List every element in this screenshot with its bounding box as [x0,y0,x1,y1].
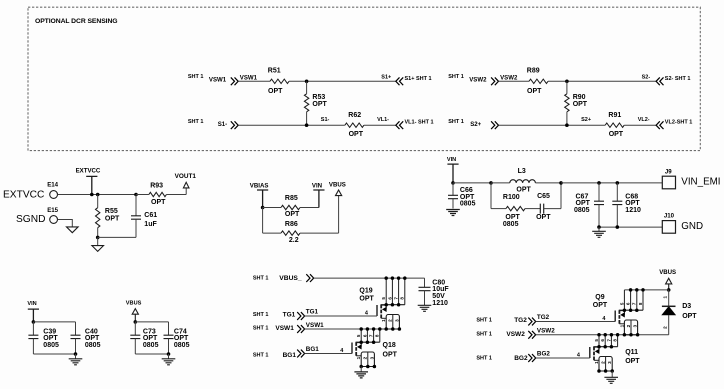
wire R85 to VIN flag [300,207,319,209]
transistor Q19 source junctions [384,327,401,331]
svg-text:VSW2: VSW2 [537,328,555,335]
svg-text:BG2: BG2 [514,355,528,362]
svg-text:OPT: OPT [527,88,542,95]
svg-text:VBIAS: VBIAS [250,182,269,189]
resistor R100 [506,206,525,210]
svg-text:Q18: Q18 [383,342,396,349]
svg-text:0805: 0805 [503,221,519,228]
diode D3 [668,290,670,306]
svg-text:D3: D3 [682,303,691,310]
connector J9 [662,176,675,189]
svg-text:VSW1: VSW1 [275,325,294,332]
svg-text:OPT: OPT [151,199,166,206]
transistor Q19 drain pin junctions [384,276,406,306]
svg-text:VIN: VIN [27,301,36,307]
svg-text:OPT: OPT [593,302,608,309]
transistor Q11 channel [593,347,595,361]
svg-text:0805: 0805 [143,342,159,349]
svg-text:R89: R89 [527,67,540,74]
svg-text:8: 8 [400,297,405,300]
transistor Q11 drain link [594,346,599,348]
svg-text:VBUS: VBUS [126,301,142,307]
wire R100 to C65 [525,208,540,210]
wire L3 node to J9 [561,182,662,184]
transistor Q18 drain pins 5 6 7 8 [360,329,362,342]
wire R91 to VL2- [624,124,656,126]
svg-text:VIN: VIN [312,182,322,189]
svg-text:S1-: S1- [218,121,227,128]
transistor Q11 drain pin junctions [597,333,619,348]
wire BG2 to Q11 gate [536,357,590,359]
connector J10 [662,221,675,234]
svg-text:S2-: S2- [642,74,651,80]
wire R62 to VL1- [364,124,396,126]
node junction S2- top [565,80,569,84]
connector >> VSW2 [491,77,498,85]
wire S1- to junction [238,124,345,126]
resistor R90 [566,81,568,94]
ground sgnd E15 [67,227,79,233]
ground under C67 [598,227,600,231]
wire ground rail to J10 [599,226,662,228]
svg-text:SHT 1: SHT 1 [253,326,269,332]
svg-text:VL1-: VL1- [377,117,389,123]
svg-text:SHT 1: SHT 1 [188,74,204,80]
capacitor C73 [134,322,136,335]
resistor R53 [306,81,308,94]
wire VSW1 rail [305,328,400,330]
resistor R93 [136,194,149,196]
svg-text:OPT: OPT [268,88,283,95]
transistor Q18 source box [361,352,374,367]
svg-text:OPT: OPT [573,101,588,108]
svg-text:VBUS_: VBUS_ [279,275,302,282]
svg-text:OPT: OPT [312,101,327,108]
svg-text:8: 8 [638,302,643,305]
resistor R91 [605,123,624,127]
connector >> S2+ [491,121,498,129]
svg-text:VSW1: VSW1 [240,74,258,81]
svg-text:TG2: TG2 [514,317,527,324]
wire cap bank VBUS top rail [135,321,168,323]
transistor Q19 channel [380,305,382,319]
net arrow VBUS mid [336,190,342,196]
svg-text:SHT 1: SHT 1 [253,275,269,281]
svg-text:SGND: SGND [16,214,45,225]
junction VBIAS [261,206,265,210]
connector >> VSW1 rail [297,325,304,333]
transistor Q18 source junctions [359,365,376,369]
wire E14 to node [58,194,137,196]
wire VSW2 rail [536,334,669,336]
svg-text:VSW1: VSW1 [209,77,227,84]
transistor Q18 gate [351,343,353,354]
svg-text:0805: 0805 [574,207,590,214]
svg-text:3: 3 [394,319,399,322]
transistor Q18 drain pin junctions [359,327,381,344]
svg-text:TG2: TG2 [537,314,550,321]
svg-text:R91: R91 [608,112,621,119]
capacitor C66 [452,183,454,195]
svg-text:S2- SHT 1: S2- SHT 1 [665,76,691,82]
svg-text:2.2: 2.2 [289,237,299,244]
transistor Q11 gate [589,347,591,358]
junction C68 top [616,181,620,185]
connector << VL2- [656,121,663,129]
junction C67 top [597,181,601,185]
svg-text:5: 5 [594,339,599,342]
junction R55 bottom [96,236,100,240]
wire parallel branch left [490,183,492,209]
svg-text:EXTVCC: EXTVCC [3,189,44,200]
svg-text:7: 7 [632,302,637,305]
svg-text:1210: 1210 [432,300,448,307]
wire TG1 to Q19 gate [305,315,377,317]
wire R86 to VBUS flag [300,232,339,234]
inductor L3 [491,182,510,184]
svg-text:TG1: TG1 [306,309,319,316]
svg-text:TG1: TG1 [283,312,296,319]
connector >> BG2 [528,354,535,362]
svg-text:6: 6 [626,302,631,305]
svg-text:7: 7 [394,297,399,300]
wire VIN node to L3 node [453,182,491,184]
junction C67 bottom [597,225,601,229]
capacitor C68 [616,183,618,201]
svg-text:7: 7 [606,339,611,342]
svg-text:1: 1 [619,324,624,327]
junction R55 top [96,193,100,197]
transistor Q9 channel [618,310,620,324]
svg-text:R51: R51 [268,67,281,74]
svg-text:OPT: OPT [609,131,624,138]
transistor Q9 drain pin junctions [623,288,645,312]
transistor Q9 drain bar [619,309,643,311]
transistor Q19 drain bar [381,304,405,306]
svg-text:VBUS: VBUS [659,269,676,276]
capacitor C40 [75,322,77,335]
resistor R62 [345,123,364,127]
transistor Q18 source link [356,355,361,357]
transistor Q18 drain bar [356,341,380,343]
svg-text:E15: E15 [47,207,58,214]
turret E14 [50,191,58,199]
svg-text:1210: 1210 [625,207,641,214]
transistor Q18 body arrow [360,342,362,347]
ground under C66 [446,210,460,216]
svg-text:R53: R53 [312,94,325,101]
svg-text:VBUS: VBUS [329,182,346,189]
wire R51 to S1+ [289,80,396,82]
node junction S1- bottom [305,123,309,127]
connector >> VBUS_ [306,274,313,282]
svg-text:C61: C61 [144,212,157,219]
turret E15 [50,216,58,224]
svg-text:J9: J9 [665,168,672,175]
wire E15 to ground [58,220,73,227]
transistor Q9 source junctions [623,333,640,337]
net arrow VOUT1 [185,188,187,194]
svg-text:1: 1 [356,356,361,359]
wire C65 to right node [544,208,561,210]
transistor Q9 source link [619,323,624,325]
svg-text:BG2: BG2 [537,351,550,358]
svg-text:3: 3 [607,361,612,364]
transistor Q18 channel [355,342,357,356]
svg-text:VL1- SHT 1: VL1- SHT 1 [405,120,434,126]
transistor Q11 source box [599,357,612,372]
transistor Q9 drain pins 5 6 7 8 [623,290,625,310]
svg-text:VSW1: VSW1 [306,322,324,329]
svg-text:S1-: S1- [321,117,330,123]
ground cap bank VBUS [168,354,170,359]
transistor Q11 drain bar [593,346,617,348]
svg-text:GND: GND [681,221,703,232]
junction C68 bottom [616,225,620,229]
svg-text:VIN_EMI: VIN_EMI [681,176,720,187]
wire VSW1 to R51 [238,80,270,82]
svg-text:3: 3 [369,356,374,359]
junction L3 left [489,181,493,185]
capacitor C65 [540,204,543,214]
svg-text:BG1: BG1 [283,352,297,359]
ground under C80 [418,305,432,311]
svg-text:VL2-SHT 1: VL2-SHT 1 [665,120,693,126]
connector << VL1- [396,121,403,129]
svg-text:E14: E14 [47,181,58,188]
junction VBUS right [667,288,671,292]
svg-text:2: 2 [601,361,606,364]
node junction S2+ bottom [565,123,569,127]
svg-text:8: 8 [613,339,618,342]
wire VBIAS down to R86 [262,208,264,234]
svg-text:5: 5 [356,334,361,337]
svg-text:OPTIONAL DCR SENSING: OPTIONAL DCR SENSING [35,18,118,25]
transistor Q19 drain link [381,304,386,306]
capacitor C67 [598,183,600,201]
junction L3 right [559,181,563,185]
svg-text:OPT: OPT [536,214,551,221]
transistor Q11 body arrow [598,347,600,352]
connector << S2- [656,77,663,85]
svg-text:Q9: Q9 [595,294,604,301]
connector >> TG2 [528,318,535,326]
resistor R89 [529,79,548,83]
transistor Q18 drain link [356,341,361,343]
wire S2+ to junction [499,124,606,126]
svg-text:S1+: S1+ [381,74,391,80]
transistor Q11 source link [594,359,599,361]
transistor Q19 gate [376,305,378,316]
svg-text:L3: L3 [518,168,526,175]
ground sgnd under R55 [97,237,99,245]
svg-text:2: 2 [626,324,631,327]
junction VIN emi [451,181,455,185]
svg-text:R100: R100 [503,194,520,201]
transistor Q19 drain pins 5 6 7 8 [385,278,387,305]
optional DCR sensing dashed box [28,7,700,150]
junction EXTVCC flag [90,193,94,197]
svg-text:OPT: OPT [383,352,398,359]
transistor Q11 source junctions [597,369,614,373]
svg-text:R90: R90 [573,94,586,101]
transistor Q19 source link [381,317,386,319]
svg-text:OPT: OPT [359,295,374,302]
svg-text:7: 7 [369,334,374,337]
svg-text:SHT 1: SHT 1 [476,332,492,338]
junction VBUS cap bank [134,320,138,324]
svg-text:Q11: Q11 [625,349,638,356]
svg-text:SHT 1: SHT 1 [253,312,269,318]
junction cap bank VIN ground [74,352,78,356]
svg-text:Q19: Q19 [359,288,372,295]
svg-text:5: 5 [619,302,624,305]
svg-text:SHT 1: SHT 1 [476,318,492,324]
wire cap bank VIN bottom rail [33,353,75,355]
connector >> BG1 [297,350,304,358]
junction cap bank VBUS ground [167,352,171,356]
svg-text:0805: 0805 [460,201,476,208]
svg-text:SHT 1: SHT 1 [253,352,269,358]
svg-text:EXTVCC: EXTVCC [76,168,101,175]
transistor Q9 drain link [619,309,624,311]
svg-text:0805: 0805 [85,342,101,349]
svg-text:S2+: S2+ [470,121,481,128]
wire VBUS rail right [624,289,668,291]
svg-text:VSW2: VSW2 [506,331,525,338]
svg-text:SHT 1: SHT 1 [448,74,464,80]
svg-text:VIN: VIN [447,157,456,163]
connector >> TG1 [297,312,304,320]
ground cap bank VIN [75,354,77,359]
svg-text:SHT 1: SHT 1 [476,356,492,362]
transistor Q9 source box [624,320,637,335]
resistor R86 [281,231,300,235]
connector << S1+ [396,77,403,85]
svg-text:1uF: 1uF [144,221,157,228]
transistor Q19 source box [386,315,399,330]
svg-text:R93: R93 [150,183,163,190]
svg-text:6: 6 [387,297,392,300]
wire BG1 to Q18 gate [305,353,352,355]
wire cap bank VBUS bottom rail [135,353,168,355]
svg-text:2: 2 [663,326,668,329]
svg-text:OPT: OPT [682,313,697,320]
resistor R51 [270,79,289,83]
svg-text:S2+: S2+ [581,117,591,123]
svg-text:2: 2 [363,356,368,359]
wire TG2 to Q9 gate [536,321,616,323]
svg-text:VL2-: VL2- [638,117,650,123]
svg-text:VSW2: VSW2 [469,77,487,84]
node junction S1+ top [305,80,309,84]
wire R89 to S2- [548,80,656,82]
svg-text:0805: 0805 [43,342,59,349]
wire cap bank VIN top rail [33,321,75,323]
svg-text:6: 6 [362,334,367,337]
junction VIN cap bank [32,320,36,324]
svg-text:8: 8 [375,334,380,337]
svg-text:1: 1 [381,319,386,322]
wire VBUS_ rail [314,277,425,279]
svg-text:BG1: BG1 [306,346,319,353]
svg-text:OPT: OPT [516,186,531,193]
transistor Q11 drain pins 5 6 7 8 [598,335,600,347]
svg-text:2: 2 [388,319,393,322]
svg-text:OPT: OPT [105,216,120,223]
transistor Q19 body arrow [385,305,387,310]
svg-text:R55: R55 [105,208,118,215]
wire R55 bottom to C61 bottom [98,236,136,238]
svg-text:OPT: OPT [285,211,300,218]
connector >> VSW1 [231,77,238,85]
capacitor C80 [424,278,426,287]
capacitor C61 [134,193,138,197]
transistor Q9 body arrow [623,310,625,315]
svg-text:0805: 0805 [174,342,190,349]
svg-text:R62: R62 [348,112,361,119]
svg-text:6: 6 [600,339,605,342]
svg-text:VOUT1: VOUT1 [175,173,197,180]
svg-text:SHT 1: SHT 1 [448,119,464,125]
connector >> VSW2 rail [528,331,535,339]
svg-text:J10: J10 [664,213,675,220]
resistor R55 [97,195,99,208]
svg-text:C65: C65 [537,193,550,200]
transistor Q9 gate [614,311,616,322]
svg-text:1: 1 [663,295,668,298]
svg-text:1: 1 [594,361,599,364]
svg-text:OPT: OPT [625,358,640,365]
wire VSW2 to R89 [499,80,530,82]
capacitor C74 [168,322,170,335]
ground under Q18 [360,367,362,372]
ground under Q11 [611,371,613,377]
svg-text:OPT: OPT [349,131,364,138]
svg-text:R85: R85 [285,195,298,202]
svg-text:VSW2: VSW2 [500,74,518,81]
svg-text:S1+ SHT 1: S1+ SHT 1 [405,76,432,82]
svg-text:5: 5 [381,297,386,300]
svg-text:SHT 1: SHT 1 [188,119,204,125]
capacitor C39 [32,322,34,335]
svg-text:R86: R86 [285,221,298,228]
wire VBIAS to R85 [263,207,281,209]
connector >> S1- [231,121,238,129]
resistor R85 [281,205,300,209]
svg-text:3: 3 [633,324,638,327]
